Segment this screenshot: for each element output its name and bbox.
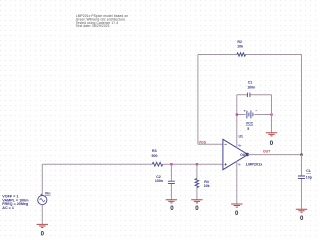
svg-text:C2: C2 [156,175,161,179]
ground below CL [296,209,307,212]
svg-text:100n: 100n [247,86,255,90]
capacitor CL [298,176,305,178]
junction at R4 branch [196,163,198,165]
label 0 (R4 ground) [195,205,199,212]
label R4 [204,180,209,184]
svg-text:V-: V- [238,163,241,167]
label CL [306,169,312,173]
label 5 (VCC value) [247,127,249,131]
ground for VCC [266,133,277,136]
wire op-amp V- pin down to ground [236,161,238,204]
resistor R2 [237,53,246,56]
resistor R4 [195,179,199,188]
label 0 (VCC ground) [270,140,274,147]
label 0 (C2 ground) [170,205,174,212]
svg-text:VOS: VOS [199,140,207,144]
svg-text:LMP201x: LMP201x [246,162,263,166]
svg-text:OUT: OUT [240,153,248,157]
svg-text:10k: 10k [204,184,210,188]
svg-text:V+: V+ [238,144,242,148]
label 10k (R4 value) [204,184,210,188]
junction VCC rail right [270,113,272,115]
junction output T [300,154,302,156]
svg-text:100n: 100n [155,179,163,183]
capacitor C2 [168,181,175,183]
op-amp inverting input minus sign [225,143,227,145]
junction VCC rail left [236,113,238,115]
label R3 [152,149,157,153]
wire input horizontal from Vin to op-amp [42,163,223,165]
label Vin [45,191,51,195]
Vin source parameters text [2,195,29,210]
op-amp non-inverting input plus sign [225,163,227,165]
op-amp U1 triangle [223,139,249,169]
junction at C2 branch [170,163,172,165]
svg-text:10k: 10k [237,45,243,49]
wire C2 branch vertical [170,164,172,200]
wire feedback right vertical [301,55,303,155]
pin V+ label [238,144,242,148]
label U1 [239,134,244,138]
label C1 [248,80,253,84]
ground below Vin [37,224,48,227]
wire net VOS to inverting input [198,143,223,145]
label VCC [246,122,254,126]
wire R4 branch vertical [196,164,198,200]
wire VCC right vertical to ground [271,95,273,133]
label 10p (CL value) [306,176,312,180]
label 0 (Vin ground) [41,230,45,237]
pin V- label [238,163,241,167]
svg-text:VCC: VCC [246,122,254,126]
label C2 [156,175,161,179]
label 100n (C2 value) [155,179,163,183]
source Vin sine symbol [38,194,47,205]
svg-text:500: 500 [152,154,158,158]
svg-text:R2: R2 [237,40,242,44]
svg-text:Test date: 06/29/2023: Test date: 06/29/2023 [76,24,110,28]
label 500 (R3 value) [152,154,158,158]
node VOS label [199,140,207,144]
label 0 (CL ground) [300,215,304,222]
svg-text:10p: 10p [306,176,312,180]
capacitor C1 [247,93,250,97]
ground below C2 [166,200,177,203]
svg-text:C1: C1 [248,80,253,84]
schematic comment text block [76,14,128,28]
resistor R3 [152,162,162,166]
svg-text:U1: U1 [239,134,244,138]
svg-text:Vin: Vin [45,191,51,195]
wire from Vin up to input wire [41,164,43,195]
ground below op-amp V- [231,204,242,207]
svg-text:R3: R3 [152,149,157,153]
label R2 [237,40,242,44]
wire op-amp V+ pin up to supply rail [236,95,238,148]
label 10k (R2 value) [237,45,243,49]
DC source VCC battery symbol [244,110,257,118]
label 0 (op-amp ground) [235,210,239,217]
svg-text:5: 5 [247,127,249,131]
svg-text:AC = 1: AC = 1 [2,206,14,210]
wire feedback left vertical [197,55,199,145]
wire from Vin down to ground [41,205,43,225]
wire VCC rail [237,114,272,116]
svg-text:OUT: OUT [263,150,271,154]
pin OUT label inside op-amp [240,153,248,157]
wire feedback top horizontal [198,54,302,56]
wire C1 bypass branch top [237,94,272,96]
wire op-amp output [248,154,302,156]
label 100n (C1 value) [247,86,255,90]
node OUT label [263,150,271,154]
wire CL branch vertical [301,155,303,210]
ground below R4 [191,200,202,203]
label LMP201x [246,162,263,166]
